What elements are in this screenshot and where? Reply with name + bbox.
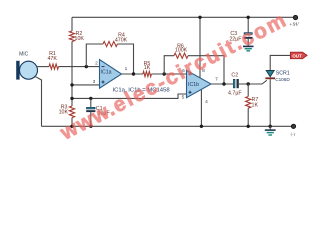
node pin8 on top rail	[198, 16, 201, 19]
resistor R2	[69, 31, 74, 42]
svg-text:MIC: MIC	[19, 51, 29, 57]
capacitor C3	[247, 17, 249, 33]
wire bottom ground rail	[42, 125, 294, 127]
svg-text:7: 7	[215, 77, 218, 83]
wire MIC output to R1	[37, 66, 49, 68]
svg-text:10K: 10K	[59, 110, 69, 116]
wire R1 to op-amp pin 2 (crosses bias column, junction with R4)	[59, 66, 100, 68]
wire pin4 to ground rail	[200, 90, 202, 127]
resistor R6	[174, 53, 188, 58]
svg-text:C2: C2	[231, 73, 238, 79]
node C3 on top rail	[247, 16, 250, 19]
svg-text:SCR1: SCR1	[276, 71, 290, 77]
wire bias node horizontal run to C1 and IC1b pin5	[72, 94, 187, 98]
wire pin3 stub from bias column to IC1a	[72, 84, 100, 86]
ground at bottom rail	[269, 126, 271, 130]
wire R4 right end down to IC1a output	[117, 44, 133, 74]
node C1 bottom on ground rail	[89, 125, 92, 128]
op-amp IC1b	[187, 70, 212, 97]
node R3 bottom on ground rail	[70, 125, 73, 128]
node output / R4 junction	[132, 72, 135, 75]
resistor R1	[49, 64, 59, 69]
terminal (-)	[291, 124, 295, 128]
svg-text:3: 3	[93, 79, 96, 85]
ground under C3	[243, 45, 254, 47]
node SCR cathode on ground rail	[269, 125, 272, 128]
wire R4 feedback branch up from pin2 node	[86, 44, 103, 67]
svg-text:C106D: C106D	[275, 77, 290, 82]
wire IC1b output to C2	[211, 83, 234, 85]
microphone MIC	[16, 61, 19, 80]
SCR1 anode wire from OUT	[270, 55, 290, 70]
node bias column / pin3	[70, 83, 73, 86]
node pin6 / R6 junction	[163, 72, 166, 75]
node C1 tap	[89, 97, 92, 100]
thyristor SCR1 C106D	[266, 71, 274, 77]
wire C2 to R7 node and SCR gate	[239, 80, 267, 84]
wire IC1a output to R5	[122, 73, 143, 75]
wire top supply rail	[72, 16, 296, 18]
svg-text:2: 2	[95, 61, 98, 67]
svg-text:470K: 470K	[115, 37, 128, 43]
svg-text:100K: 100K	[175, 48, 188, 54]
node output / R6 junction	[222, 82, 225, 85]
node bias column / run	[70, 97, 73, 100]
capacitor C1	[90, 98, 92, 107]
wire pin8 supply	[199, 17, 201, 78]
wire R5 to IC1b pin6	[151, 73, 186, 75]
resistor R3	[69, 106, 74, 118]
node junction R1/R4/pin2	[85, 65, 88, 68]
node R7 tap	[247, 82, 250, 85]
svg-text:1: 1	[125, 66, 128, 72]
wire left bias column (R2/R3 string) top rail to R2	[71, 17, 73, 31]
wire R6 branch up	[164, 56, 174, 74]
svg-text:(-): (-)	[291, 132, 296, 137]
wire bias column pin3-node down to R3	[71, 98, 73, 106]
wire R3 bottom to ground rail	[71, 118, 73, 127]
wire MIC lower lead to ground rail	[35, 76, 42, 126]
svg-text:10K: 10K	[75, 36, 85, 42]
svg-text:IC1a: IC1a	[101, 70, 112, 76]
svg-text:4.7µF: 4.7µF	[228, 91, 242, 97]
resistor R5	[143, 71, 152, 76]
node pin4 on ground rail	[200, 125, 203, 128]
svg-text:1K: 1K	[144, 65, 151, 71]
OUT flag	[290, 52, 307, 59]
capacitor C2	[233, 79, 235, 88]
resistor R7	[247, 84, 249, 97]
resistor R4	[103, 41, 117, 46]
svg-text:IC1b: IC1b	[188, 82, 199, 88]
op-amp IC1a	[100, 60, 122, 89]
svg-text:4: 4	[205, 99, 208, 105]
wire R6 right end down to IC1b output	[188, 56, 224, 84]
wire R2 bottom down crossing pin2 wire to pin3 node	[71, 42, 73, 99]
svg-text:1K: 1K	[252, 103, 259, 109]
svg-text:5: 5	[182, 95, 185, 101]
svg-text:OUT: OUT	[292, 53, 302, 58]
node R7 bottom on ground rail	[247, 125, 250, 128]
svg-text:47K: 47K	[47, 56, 57, 62]
terminal +9V	[293, 15, 297, 19]
